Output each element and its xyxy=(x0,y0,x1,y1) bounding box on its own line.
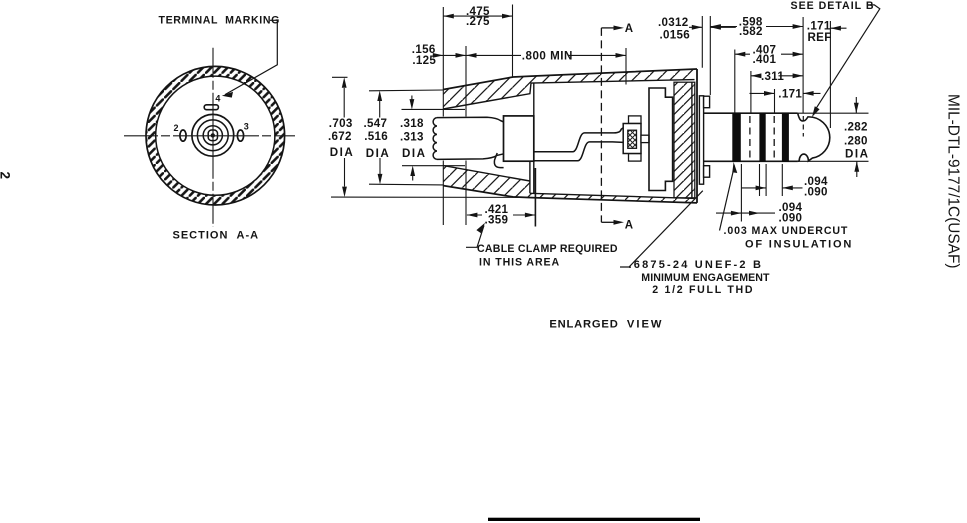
svg-text:.313: .313 xyxy=(400,131,424,144)
solder sleeve hook xyxy=(494,153,503,168)
svg-text:ENLARGED: ENLARGED xyxy=(549,319,618,331)
groove centerline 2 xyxy=(773,116,775,159)
dim .094/.090 upper xyxy=(741,175,828,198)
center contact concentric circles xyxy=(192,114,234,156)
svg-text:.672: .672 xyxy=(328,130,352,143)
ext line tip groove xyxy=(802,17,804,113)
svg-text:.359: .359 xyxy=(485,214,509,227)
contact upper step xyxy=(629,116,642,124)
svg-text:.275: .275 xyxy=(466,15,490,28)
dim .475/.275 xyxy=(443,5,512,28)
svg-text:2 1/2 FULL THD: 2 1/2 FULL THD xyxy=(652,284,754,296)
shell outer bottom edge xyxy=(443,186,697,203)
locking tooth top xyxy=(704,96,710,108)
svg-text:OF INSULATION: OF INSULATION xyxy=(745,239,853,251)
shell outer top edge xyxy=(443,69,697,90)
svg-text:2: 2 xyxy=(174,123,179,133)
svg-text:CABLE CLAMP REQUIRED: CABLE CLAMP REQUIRED xyxy=(477,243,618,255)
cable clamp leader xyxy=(466,223,618,269)
terminal 4 slot xyxy=(204,105,218,110)
bell inner bottom edge xyxy=(443,166,694,199)
bell inner top edge xyxy=(443,80,694,109)
thread spec leader xyxy=(620,191,770,296)
dim .598/.582 xyxy=(710,16,803,39)
body top wall hatch xyxy=(531,69,697,83)
svg-text:.171: .171 xyxy=(778,88,802,101)
ext line .475 right xyxy=(512,5,514,78)
svg-text:IN THIS AREA: IN THIS AREA xyxy=(479,257,560,269)
ext line .800 right xyxy=(625,48,627,85)
ball tip xyxy=(798,113,830,161)
dim .171 xyxy=(750,88,821,101)
ext lines .547 dia xyxy=(369,90,443,185)
rear insert disc xyxy=(674,82,695,198)
svg-text:.318: .318 xyxy=(400,117,424,130)
svg-text:DIA: DIA xyxy=(402,147,426,160)
vertical centerline xyxy=(212,48,214,227)
svg-text:VIEW: VIEW xyxy=(627,319,664,331)
svg-text:SEE DETAIL B: SEE DETAIL B xyxy=(791,0,875,12)
svg-text:.703: .703 xyxy=(329,117,353,130)
body bottom wall hatch xyxy=(530,193,697,203)
svg-text:TERMINAL MARKING: TERMINAL MARKING xyxy=(159,15,280,27)
bottom rule bar xyxy=(488,518,700,521)
svg-text:.800 MIN: .800 MIN xyxy=(522,50,573,63)
svg-text:DIA: DIA xyxy=(366,147,390,160)
insulation band 3 xyxy=(782,113,789,162)
horizontal centerline xyxy=(124,135,295,137)
svg-text:MIL-DTL-9177/1C(USAF): MIL-DTL-9177/1C(USAF) xyxy=(945,94,962,268)
bell bottom wall hatch xyxy=(443,166,531,198)
dim .311 xyxy=(751,70,803,83)
svg-text:4: 4 xyxy=(215,93,220,103)
wire bottom edge xyxy=(534,142,623,161)
bell top wall hatch xyxy=(443,76,531,109)
dim .703 dia arrows xyxy=(328,77,354,197)
svg-text:MINIMUM ENGAGEMENT: MINIMUM ENGAGEMENT xyxy=(641,272,770,284)
contact pin xyxy=(641,135,649,142)
ext line .407 left xyxy=(734,50,736,114)
svg-text:.582: .582 xyxy=(739,25,763,38)
svg-text:SECTION A-A: SECTION A-A xyxy=(173,229,260,241)
tip hidden line xyxy=(802,116,804,137)
svg-text:A: A xyxy=(625,23,633,35)
svg-text:.003 MAX UNDERCUT: .003 MAX UNDERCUT xyxy=(724,225,849,237)
locking tooth bottom xyxy=(704,166,710,178)
svg-text:REF: REF xyxy=(808,31,832,44)
terminal 2 oval xyxy=(180,130,186,141)
svg-text:.282: .282 xyxy=(844,120,868,133)
counterbore walls xyxy=(530,83,534,193)
insert block xyxy=(649,88,673,191)
svg-text:.516: .516 xyxy=(364,130,388,143)
.003 MAX UNDERCUT leader xyxy=(720,162,854,251)
dim .156/.125 xyxy=(412,43,521,67)
body right face xyxy=(696,69,698,203)
terminal 3 oval xyxy=(237,130,243,141)
svg-text:.401: .401 xyxy=(753,53,777,66)
svg-text:3: 3 xyxy=(244,121,249,131)
cable jacket xyxy=(437,117,504,122)
svg-text:DIA: DIA xyxy=(330,146,354,159)
dim .421/.359 xyxy=(467,203,536,226)
svg-text:.311: .311 xyxy=(761,70,784,83)
threaded shank outline xyxy=(704,113,798,161)
svg-text:.6875-24 UNEF-2 B: .6875-24 UNEF-2 B xyxy=(629,259,764,271)
wire top edge xyxy=(534,128,623,152)
cable braid end xyxy=(433,118,437,160)
contact body xyxy=(623,124,641,154)
dim .800 MIN xyxy=(466,50,626,63)
svg-text:DIA: DIA xyxy=(845,148,869,161)
center pin dot xyxy=(211,133,215,137)
gasket disc xyxy=(699,96,703,184)
ext line clamp left xyxy=(465,46,467,225)
insulation band 2 xyxy=(759,113,765,162)
dim .407/.401 xyxy=(735,43,803,66)
ext lines .318 dia xyxy=(402,109,466,165)
ext line clamp right xyxy=(534,168,536,227)
dim .282/.280 DIA xyxy=(844,97,869,177)
svg-text:.125: .125 xyxy=(412,54,436,67)
ext lines .282 dia xyxy=(798,113,869,161)
ext line .0312 pair xyxy=(702,16,710,95)
ext line .311 left xyxy=(750,71,752,113)
ext line tip end xyxy=(829,21,831,128)
SEE DETAIL B leader xyxy=(791,0,880,117)
svg-text:.090: .090 xyxy=(779,211,803,224)
contact lower step xyxy=(629,154,642,162)
dim .171 REF xyxy=(807,20,847,44)
dim .0312/.0156 xyxy=(658,16,736,41)
ext line bell left xyxy=(442,7,444,225)
groove centerline 1 xyxy=(749,116,751,159)
svg-text:.0156: .0156 xyxy=(660,29,691,42)
svg-text:.280: .280 xyxy=(844,134,868,147)
cable ferrule xyxy=(504,116,534,161)
svg-text:2: 2 xyxy=(0,172,13,180)
terminal marking leader xyxy=(225,20,277,94)
insulation band 1 xyxy=(732,113,741,162)
ext lines under threads xyxy=(741,164,782,222)
svg-text:.090: .090 xyxy=(804,186,828,199)
contact crimp xyxy=(628,130,637,148)
ext line .171 left xyxy=(774,89,776,113)
svg-text:.547: .547 xyxy=(364,117,388,130)
svg-text:A: A xyxy=(625,219,633,231)
hatched shell ring xyxy=(146,66,285,205)
ext lines .703 dia xyxy=(331,77,529,197)
section line A-A xyxy=(600,28,602,222)
dim .318 dia arrows xyxy=(400,96,426,181)
svg-text:.0312: .0312 xyxy=(658,16,689,29)
dim .094/.090 lower xyxy=(716,201,803,224)
dim .547 dia arrows xyxy=(364,91,391,185)
